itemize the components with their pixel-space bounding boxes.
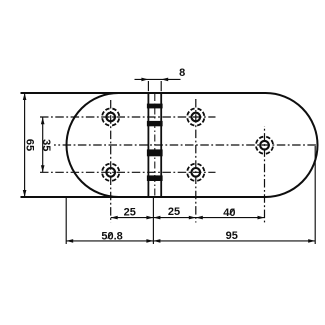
svg-text:25: 25	[124, 206, 136, 218]
svg-text:8: 8	[179, 67, 185, 79]
svg-text:95: 95	[226, 230, 238, 242]
svg-text:25: 25	[168, 206, 180, 218]
svg-text:65: 65	[24, 139, 36, 151]
svg-text:50.8: 50.8	[101, 231, 122, 243]
svg-text:35: 35	[40, 139, 52, 151]
